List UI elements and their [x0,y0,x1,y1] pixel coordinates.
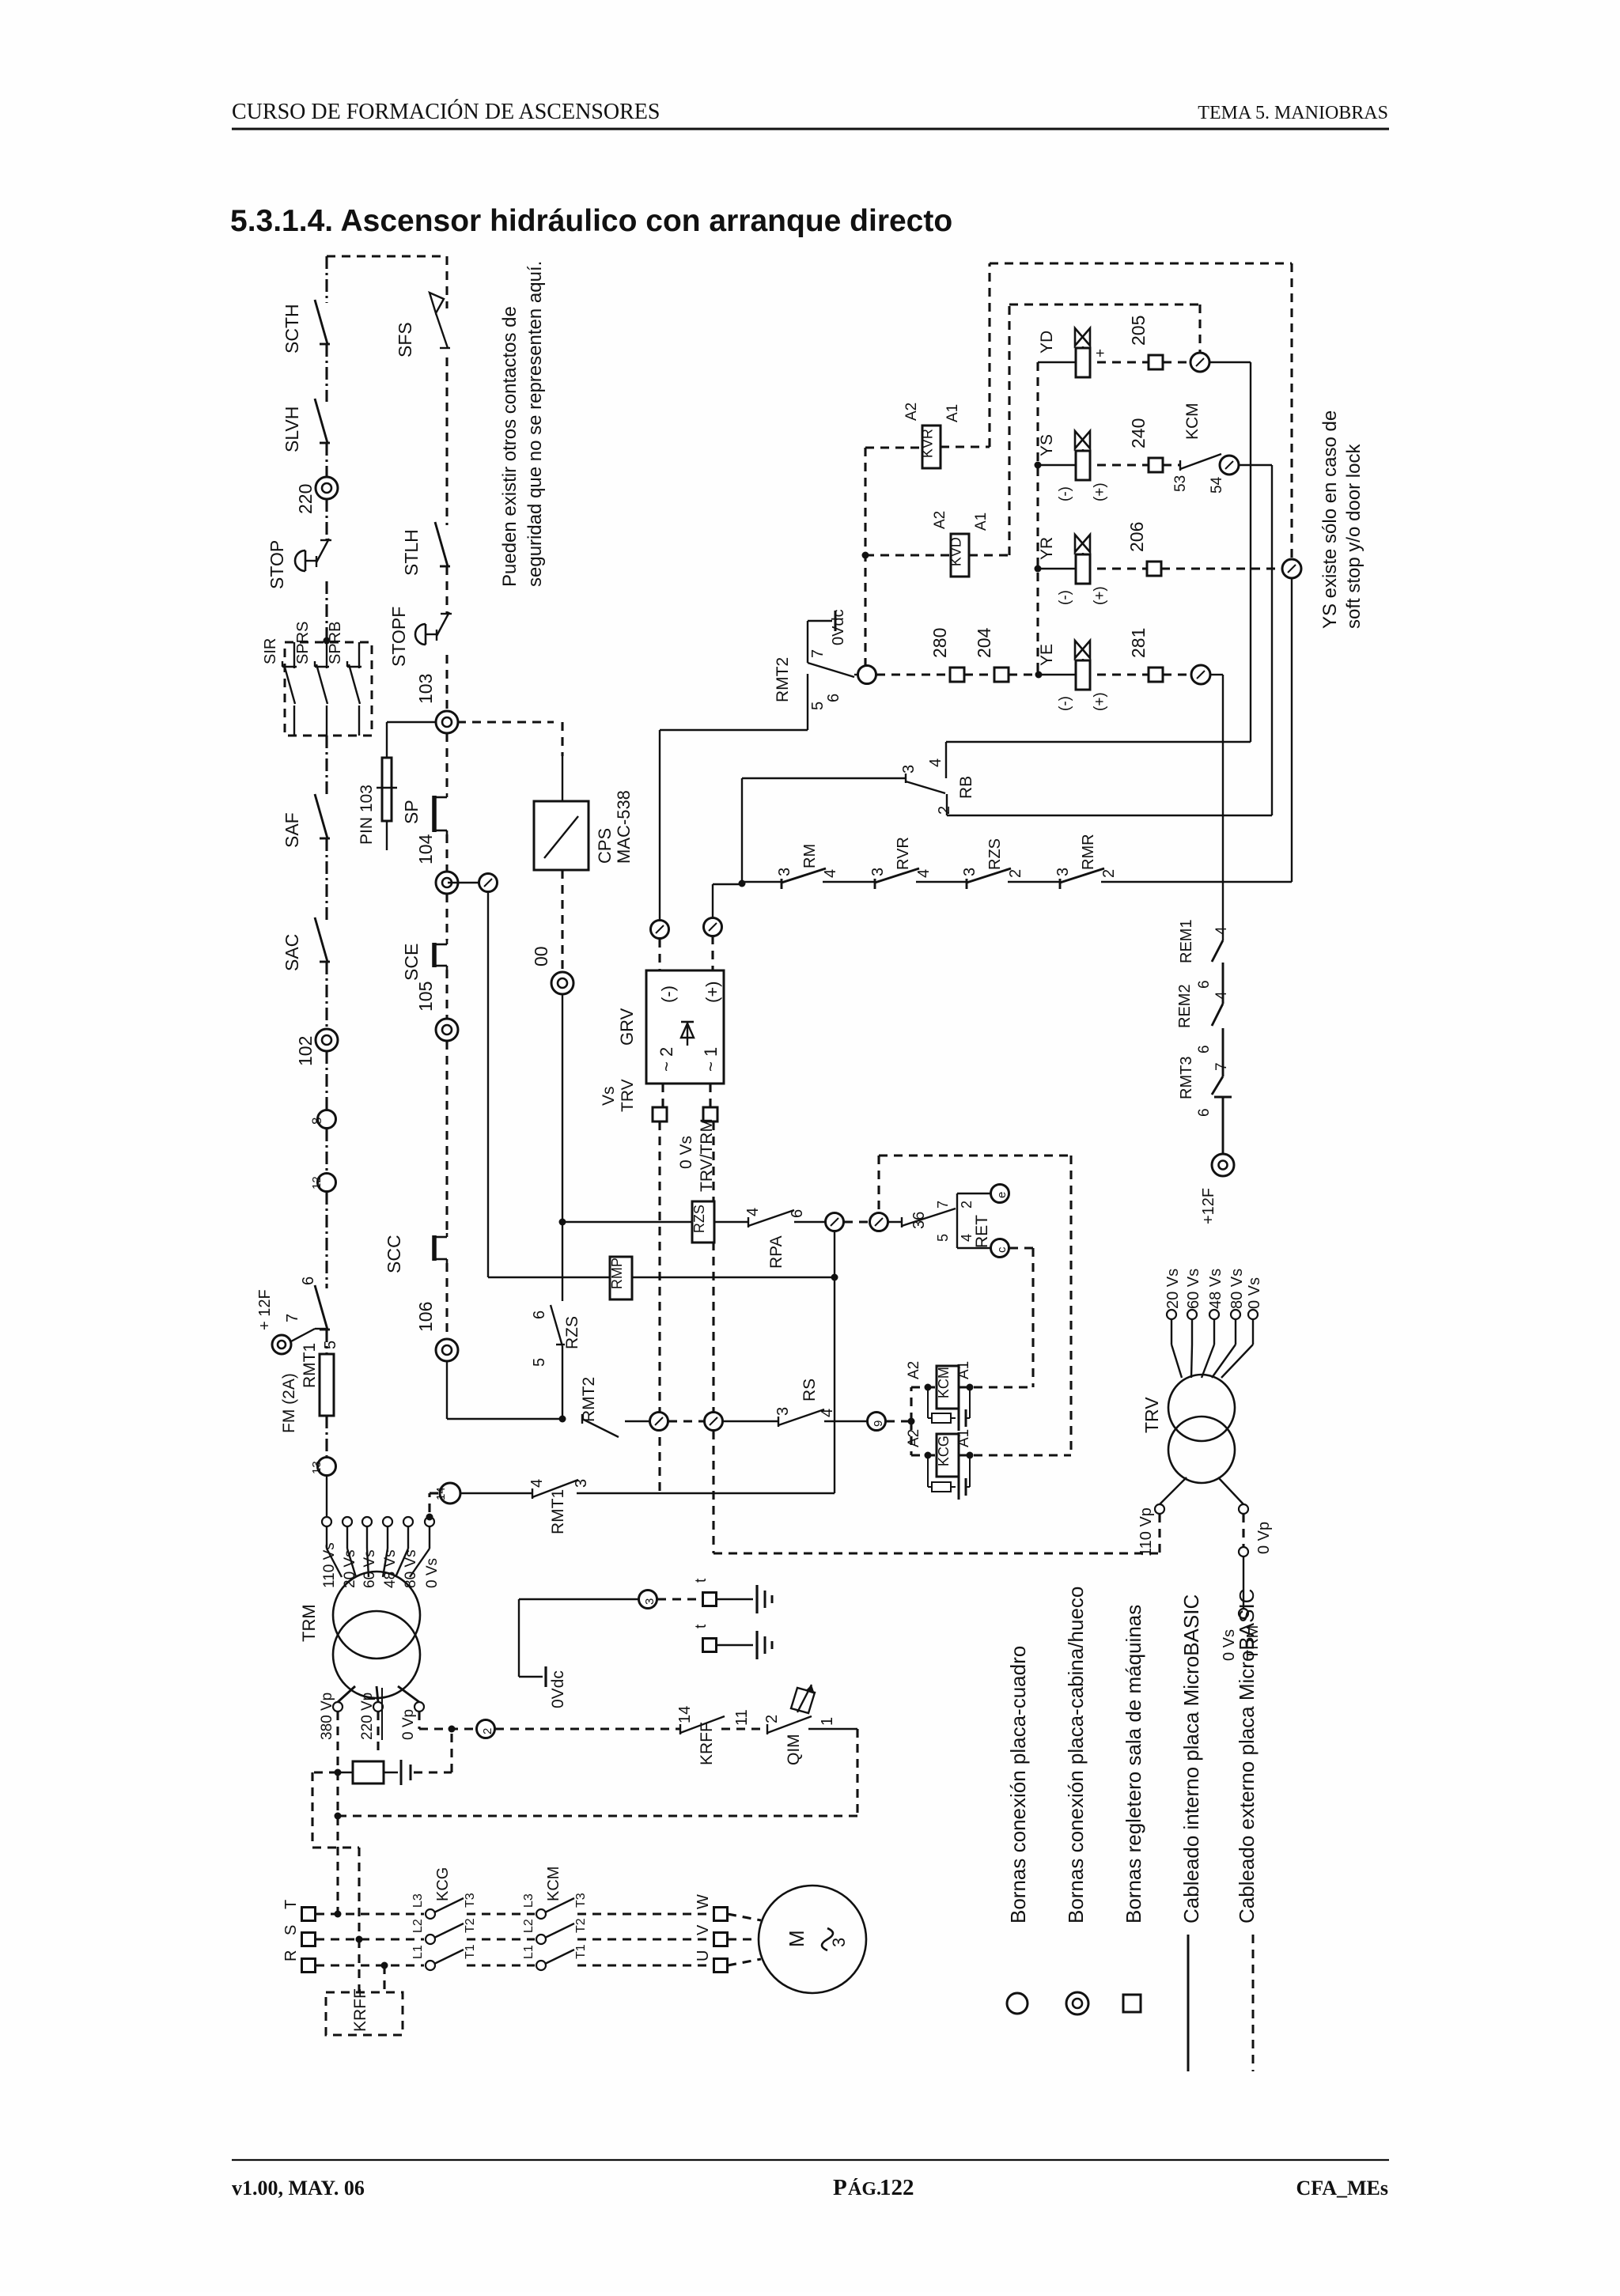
contact SAC [320,961,330,963]
svg-text:60 Vs: 60 Vs [1185,1269,1202,1309]
connector YR out [1282,559,1301,578]
transformer TRV [1168,1375,1235,1441]
svg-text:4: 4 [819,1409,836,1417]
svg-text:STOP: STOP [267,540,287,589]
connector 102 [316,1029,338,1051]
wire 0Vp down [418,1712,420,1729]
wire RMP right [632,1277,835,1278]
svg-text:0 Vs: 0 Vs [1246,1277,1263,1309]
wire 00 down [562,994,563,1301]
contact SPRB [358,642,360,668]
terminal TRM 48 Vs [383,1517,392,1526]
wire line B seg6 [445,834,448,872]
svg-text:4: 4 [744,1208,762,1216]
svg-text:SPRB: SPRB [327,622,344,664]
contactor coil KCM [937,1366,959,1409]
svg-text:(+): (+) [1092,692,1108,711]
legend symbol dashed line [1252,1935,1255,2071]
fuse FM (2A) [320,1354,334,1416]
svg-text:20 Vs: 20 Vs [1164,1269,1182,1309]
wire line A seg13 [325,1416,327,1456]
connector c [991,1239,1009,1258]
svg-text:KRFF: KRFF [698,1722,716,1765]
node TRM 0Vs [426,1514,433,1521]
svg-text:A1: A1 [956,1361,972,1379]
svg-text:80 Vs: 80 Vs [403,1549,419,1588]
wire rpa dashes [844,1220,869,1223]
bus valve minus [1036,362,1039,675]
svg-text:20 Vs: 20 Vs [342,1549,358,1588]
svg-text:0 Vp: 0 Vp [1255,1522,1273,1554]
wire rzs-rmr [1008,881,1060,883]
wire line B seg5 [445,733,448,789]
wire V to motor [728,1938,759,1940]
wire YE row dashed [1097,673,1148,675]
node KCG A1 [967,1452,974,1459]
wire to GRV ~1 [711,936,713,970]
svg-text:(-): (-) [1057,486,1073,501]
svg-text:L3: L3 [411,1893,425,1908]
svg-text:3: 3 [869,868,887,876]
wire 106 to RS row [446,1361,448,1419]
terminal TRM 0 Vs [425,1517,434,1526]
wire line A seg14 [326,1476,327,1518]
wire RZS-RPA [714,1221,748,1223]
svg-text:204: 204 [974,627,994,658]
connector 2 [477,1720,495,1738]
terminal TRM 60 Vs [362,1517,372,1526]
connector rs-b [705,1413,723,1431]
wire RMT1 out [577,1492,835,1494]
wire 0Vdc bus [864,448,866,665]
svg-text:00: 00 [531,946,551,966]
wire to KCG [910,1421,912,1455]
contact REM2 [1212,1004,1223,1026]
connector 00 [551,972,573,994]
wire rmr-end [1101,881,1292,883]
svg-text:5: 5 [935,1234,951,1242]
terminal 204 [994,668,1009,682]
wire top link rail [327,255,447,257]
svg-text:11: 11 [733,1709,751,1726]
node RZS row junction [559,1219,566,1226]
svg-text:Vs: Vs [600,1086,618,1106]
svg-text:CURSO DE FORMACIÓN DE ASCENSOR: CURSO DE FORMACIÓN DE ASCENSORES [232,100,660,124]
contact SLVH [320,442,330,444]
svg-text:4: 4 [1213,926,1230,935]
svg-text:RPA: RPA [767,1235,785,1269]
svg-text:(+): (+) [702,982,722,1004]
svg-text:280: 280 [929,628,950,658]
svg-text:M: M [785,1930,808,1947]
svg-text:+: + [1092,349,1109,357]
wire rem2-rmt3 [1222,1028,1224,1076]
svg-text:7: 7 [809,649,827,658]
node x1055 [831,1274,838,1281]
svg-text:RMR: RMR [1080,834,1097,870]
svg-text:60 Vs: 60 Vs [361,1549,378,1588]
wire line B seg9 [445,1041,448,1233]
wire c to KCM A1 [1009,1246,1033,1249]
wire KCM to WVU [577,1912,713,1915]
svg-text:220: 220 [295,484,316,514]
svg-text:6: 6 [1196,980,1213,989]
svg-text:0 Vp: 0 Vp [400,1709,417,1740]
contact SCTH [320,343,330,346]
wire +12F stub [291,1329,315,1341]
wire line B seg10 [445,1263,448,1339]
svg-text:3: 3 [1054,868,1072,876]
wire rs dashes [668,1420,704,1422]
svg-text:206: 206 [1126,522,1147,552]
node KCM KCG split [908,1418,915,1425]
node box corner [335,1813,342,1820]
svg-text:soft stop y/o door lock: soft stop y/o door lock [1343,444,1365,629]
wire KVD rail [1009,303,1200,305]
svg-text:+12F: +12F [1200,1188,1217,1224]
svg-text:(+): (+) [1092,482,1108,501]
wire W to motor [728,1914,761,1920]
legend symbol double circle [1066,1992,1088,2014]
svg-text:KCG: KCG [434,1867,452,1901]
svg-text:SCC: SCC [384,1235,404,1273]
svg-text:CPS: CPS [595,828,615,864]
wire 14 to RMT1 [460,1492,532,1494]
wire RET box dashed [877,1156,880,1212]
svg-text:t: t [693,1624,710,1628]
terminal T [302,1908,316,1921]
terminal TRM 380 Vp [333,1702,343,1712]
wire line A seg8 [325,962,327,1029]
contactor pole KCM L1-T1 [536,1961,546,1970]
svg-text:104: 104 [415,834,436,864]
svg-text:T3: T3 [574,1893,588,1908]
contactor coil KCG [937,1434,959,1477]
ground earth 1 [717,1598,753,1600]
wire to RET [888,1221,902,1223]
wire RMT2a-5 to GRV [807,728,808,730]
svg-text:2: 2 [959,1201,975,1209]
terminal V [714,1933,728,1946]
svg-text:13: 13 [310,1461,324,1474]
relay coil KVD [951,534,969,577]
terminal TRV 0 Vs [1248,1310,1258,1319]
terminal 280 [950,668,964,682]
wire 3 to t [657,1598,702,1600]
terminal U [714,1959,728,1973]
svg-text:e: e [995,1192,1009,1198]
svg-text:SFS: SFS [395,322,415,357]
wire x1055 vertical [834,1231,835,1492]
contact RMT1a [320,1329,330,1331]
svg-text:SLVH: SLVH [282,407,302,452]
connector rpa-a [826,1213,844,1231]
terminal TRV 48 Vs [1209,1310,1219,1319]
node S [356,1936,363,1943]
terminal 281 [1149,668,1163,682]
wire 104 branch [448,882,479,883]
wire S down [358,1939,360,1940]
relay box SIR SPRS SPRB [285,642,372,736]
svg-text:205: 205 [1128,316,1149,346]
svg-text:TRV: TRV [1141,1397,1162,1433]
node T [335,1911,342,1918]
wire KCG-KCM rows [467,1912,535,1915]
svg-text:RB: RB [957,776,975,799]
wire KVD A1 [969,554,1009,556]
wire line B seg1 [445,256,448,308]
svg-text:220 Vp: 220 Vp [359,1693,376,1740]
wire to KCM [910,1387,912,1421]
rectifier GRV [646,970,724,1084]
svg-text:4: 4 [915,869,933,878]
connector 220 [316,477,338,499]
filter cap [384,1772,398,1773]
svg-text:0 Vs: 0 Vs [677,1136,695,1169]
wire line A seg11 [325,1192,327,1288]
svg-text:0Vdc: 0Vdc [830,609,847,645]
svg-text:L2: L2 [411,1919,425,1933]
contactor pole KCG L2-T2 [426,1935,435,1944]
svg-text:R: R [282,1950,300,1961]
connector rs-a [650,1413,668,1431]
terminal 205 [1149,355,1163,369]
wire 380Vp down [336,1712,339,1914]
net 0Vdc bar [544,1666,547,1687]
svg-text:A2: A2 [932,511,948,529]
connector YD out [1190,353,1209,372]
svg-text:KCM: KCM [936,1367,952,1398]
terminal Vs TRV [653,1107,667,1122]
connector 14 [440,1483,460,1504]
svg-text:6: 6 [825,694,842,702]
footer rule [232,2159,1389,2161]
wire RZS row [562,1221,692,1223]
contact SCE (thermal) [446,940,449,944]
connector YS out [1220,456,1239,475]
wire 280-204 [964,673,994,675]
svg-text:RS: RS [801,1379,819,1401]
svg-text:0Vdc: 0Vdc [549,1670,567,1708]
svg-text:RMT1: RMT1 [301,1343,319,1388]
connector YE out [1191,665,1210,684]
contact STLH [440,565,450,568]
svg-text:54: 54 [1209,476,1225,494]
svg-text:7: 7 [1213,1062,1230,1071]
svg-text:7: 7 [284,1314,301,1322]
wire YR row left [1038,568,1076,569]
wire 0Vs chain down [712,1431,714,1553]
contact RMT2a [807,621,808,653]
contact SCC (thermal) [446,1233,449,1237]
svg-text:STLH: STLH [401,529,422,576]
svg-text:(-): (-) [1057,696,1073,711]
connector 9 [868,1413,886,1431]
contact RM [781,879,783,889]
connector 104b [479,874,498,892]
svg-text:A1: A1 [973,513,990,531]
legend symbol square [1123,1995,1141,2012]
legend symbol solid line [1187,1935,1190,2071]
svg-text:STOPF: STOPF [388,607,409,667]
contact RVR [874,879,876,889]
svg-text:48 Vs: 48 Vs [382,1549,399,1588]
wire KCG A1 out [959,1454,1071,1456]
wire 205 to conn [1163,361,1190,363]
legend symbol circle [1007,1993,1028,2014]
svg-text:RVR: RVR [895,837,912,870]
svg-text:(-): (-) [1057,590,1073,605]
breaker symbol QIM [791,1688,815,1713]
svg-text:RZS: RZS [986,838,1004,870]
svg-text:2: 2 [1100,869,1118,878]
svg-text:Cableado externo placa MicroBA: Cableado externo placa MicroBASIC [1235,1589,1259,1923]
connector e [991,1185,1009,1203]
wire GRV to Vs TRV [661,1084,664,1107]
contact RPA [748,1217,749,1227]
node RS row junction [559,1416,566,1423]
svg-text:A2: A2 [906,1429,922,1447]
svg-text:6: 6 [1196,1108,1213,1117]
svg-text:Pueden existir otros contactos: Pueden existir otros contactos de [499,306,520,587]
terminal TRM 20 Vs [343,1517,352,1526]
svg-text:GRV: GRV [617,1008,637,1046]
wire R down [383,1965,385,1992]
wire filter right [414,1771,452,1773]
phase control relay CPS MAC-538 [534,801,589,870]
snubber KCG [927,1455,929,1487]
wire line A seg10 [325,1129,327,1174]
svg-text:4: 4 [959,1234,975,1242]
terminal TRM 80 Vs [403,1517,413,1526]
wire YE row left [1039,674,1076,675]
svg-text:105: 105 [415,982,436,1012]
svg-text:5: 5 [322,1341,339,1349]
terminal TRM 220 Vp [373,1702,383,1712]
wire KVR rail [990,262,1292,264]
node KCM A1 [967,1384,974,1391]
wire 220Vp stub [377,1712,379,1752]
svg-text:110 Vs: 110 Vs [321,1542,338,1588]
svg-text:RZS: RZS [563,1316,581,1349]
svg-text:5.3.1.4. Ascensor hidráulico c: 5.3.1.4. Ascensor hidráulico con arranqu… [230,204,952,238]
svg-text:v1.00, MAY. 06: v1.00, MAY. 06 [232,2177,365,2200]
svg-text:T3: T3 [464,1893,477,1908]
node KCG A2 [925,1452,932,1459]
connector GRV ac2 [651,921,669,939]
relay coil RZS [692,1201,714,1243]
contact KRFF [679,1724,681,1734]
node 0Vp junction [449,1726,456,1733]
wire 110Vp dashed [1158,1514,1160,1553]
svg-text:SAF: SAF [282,812,302,848]
svg-text:YR: YR [1038,537,1056,560]
wire KVR A1 [941,445,990,448]
svg-text:V: V [695,1924,712,1935]
svg-text:FM (2A): FM (2A) [280,1373,298,1433]
svg-text:RMT3: RMT3 [1178,1057,1195,1099]
contact SPRS [326,642,327,668]
contact SFS [440,347,450,349]
wire 103 dashed to CPS [457,721,554,723]
wire line A seg1 [325,256,327,303]
svg-text:RMP: RMP [609,1258,625,1289]
wire 206 to conn [1161,567,1282,569]
svg-text:SPRS: SPRS [294,622,312,664]
svg-text:RZS: RZS [691,1205,707,1233]
node junction line A / relay box [324,637,331,645]
wire GRV to 0Vs [709,1084,711,1107]
svg-text:Bornas conexión placa-cabina/h: Bornas conexión placa-cabina/hueco [1064,1587,1088,1923]
svg-text:(-): (-) [658,985,678,1003]
contact RB [742,777,906,779]
terminal TRM 0 Vp [414,1702,424,1712]
svg-text:CFA_MEs: CFA_MEs [1296,2177,1388,2200]
svg-text:4: 4 [1213,991,1230,1000]
svg-text:c: c [995,1246,1009,1253]
wire rem1-rem2 [1222,963,1224,1004]
svg-text:TRV: TRV [619,1079,637,1112]
wire Vs TRV down [658,1122,660,1495]
svg-text:L3: L3 [522,1893,536,1908]
connector 104 [436,872,458,894]
terminal TRV 80 Vs [1231,1310,1240,1319]
wire line B seg3 [445,566,448,614]
svg-text:110 Vp: 110 Vp [1137,1507,1155,1557]
svg-text:YS: YS [1038,434,1056,456]
svg-text:U: U [695,1950,712,1961]
svg-text:SP: SP [401,800,422,824]
svg-text:240: 240 [1128,418,1149,448]
wire line A seg2 [325,344,327,402]
svg-text:Cableado interno placa MicroBA: Cableado interno placa MicroBASIC [1179,1594,1203,1923]
wire 204 to node [1009,673,1039,675]
wire 0Vs down [712,1122,714,1413]
svg-text:3: 3 [643,1598,657,1605]
connector +12F right [1212,1154,1234,1176]
wire 0Vdc link [519,1676,543,1678]
svg-text:106: 106 [415,1302,436,1332]
connector 105 [436,1019,458,1041]
svg-text:4: 4 [528,1479,546,1488]
wire line B seg2 [445,357,448,525]
terminal t2 [703,1639,717,1652]
svg-text:12: 12 [310,1176,324,1190]
svg-text:A1: A1 [956,1429,972,1447]
node KVD A2 junction [862,552,869,559]
svg-text:103: 103 [415,674,436,704]
relay box KRFF [326,1992,403,2035]
snubber KCM [927,1387,929,1418]
solenoid valve YE [1076,660,1090,690]
diode inside GRV [687,1022,688,1046]
wire QIM out [808,1728,857,1730]
svg-text:W: W [695,1894,712,1909]
contact RET [901,1217,903,1227]
svg-text:L1: L1 [411,1945,425,1959]
svg-text:RM: RM [801,844,819,868]
svg-text:8: 8 [309,1118,324,1125]
svg-text:2: 2 [1007,869,1024,878]
solenoid valve YS [1076,451,1090,480]
connector 13 [318,1458,336,1476]
svg-text:36: 36 [910,1212,928,1229]
svg-text:A2: A2 [903,403,920,421]
svg-text:281: 281 [1128,628,1149,658]
connector +12F [272,1335,291,1354]
terminal t1 [703,1593,717,1606]
svg-text:380 Vp: 380 Vp [319,1693,335,1740]
